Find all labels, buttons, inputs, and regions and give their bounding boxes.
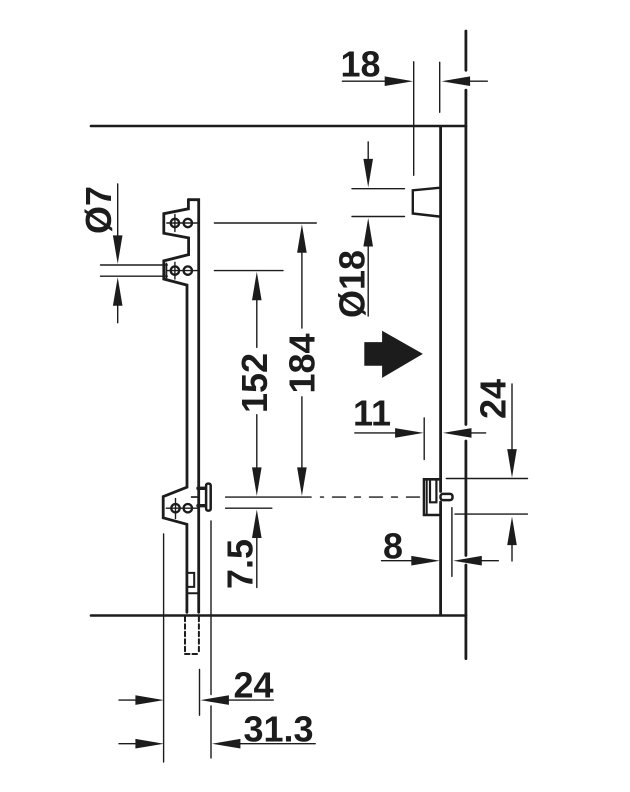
svg-text:8: 8 bbox=[383, 526, 403, 567]
mounting clip on side panel bbox=[424, 479, 440, 515]
bottom panel edge bbox=[91, 614, 466, 617]
dimension 18 lines and arrows bbox=[342, 80, 487, 82]
dimension D7 leaders and arrows bbox=[117, 184, 119, 323]
dimension 152 line and arrows bbox=[256, 300, 258, 467]
svg-text:Ø7: Ø7 bbox=[78, 186, 119, 234]
svg-text:7.5: 7.5 bbox=[219, 539, 260, 589]
direction arrow (solid) bbox=[364, 331, 423, 378]
dimension 7.5 leader and arrow bbox=[256, 538, 258, 588]
dimension 24 right extension lines bbox=[446, 479, 527, 515]
clip pin through panel bbox=[441, 494, 453, 500]
bottom extension lines bbox=[164, 521, 211, 762]
svg-text:152: 152 bbox=[234, 353, 275, 413]
dimension 24 right leaders and arrows bbox=[511, 384, 513, 561]
svg-text:24: 24 bbox=[473, 379, 514, 419]
dimension 11 extension line bbox=[423, 418, 425, 460]
svg-text:24: 24 bbox=[233, 665, 273, 706]
dimension D18 leaders and arrows bbox=[367, 142, 369, 316]
svg-text:Ø18: Ø18 bbox=[332, 250, 373, 318]
svg-text:18: 18 bbox=[340, 43, 380, 84]
system reference line at lower hole bbox=[192, 496, 312, 498]
dimension 8 extension line bbox=[451, 508, 453, 577]
axis line lower hole bbox=[166, 507, 271, 509]
dash-dot center line to clip bbox=[321, 496, 420, 498]
bracket hole top pair: crosshair circle bbox=[171, 219, 179, 227]
side panel outer edge bbox=[464, 31, 467, 659]
svg-text:184: 184 bbox=[281, 333, 322, 393]
drilled hole 18mm in side panel bbox=[413, 188, 439, 217]
bracket lower hole: crosshair circle bbox=[171, 504, 179, 512]
7mm hole bore lines bbox=[101, 265, 168, 276]
axis line top hole bbox=[167, 222, 316, 224]
dimension 184 line and arrows bbox=[301, 253, 303, 468]
hanging rail bracket right edge bbox=[188, 200, 198, 613]
dimension 8 lines and arrows bbox=[382, 560, 499, 562]
svg-text:31.3: 31.3 bbox=[243, 709, 313, 750]
bracket hole top pair: plain circle bbox=[184, 219, 192, 227]
svg-text:11: 11 bbox=[353, 393, 391, 434]
dimension 31.3 lines and arrows bbox=[119, 743, 315, 745]
bracket hole second pair: crosshair circle bbox=[171, 266, 179, 274]
dimension 24 bottom lines and arrows bbox=[119, 699, 273, 701]
top panel edge bbox=[91, 125, 466, 128]
bracket slot detail near bottom bbox=[187, 573, 194, 587]
hanging rail bracket left profile bbox=[163, 200, 188, 613]
axis line second hole bbox=[167, 270, 283, 272]
hidden rail continuation below bottom panel (dashed) bbox=[185, 617, 199, 654]
dimension D18 extension lines bbox=[352, 189, 405, 217]
bracket hole second pair: plain circle bbox=[184, 266, 192, 274]
clip pin on bracket bbox=[206, 484, 211, 511]
dimension 18 extension lines bbox=[414, 62, 440, 176]
dimension 11 lines and arrows bbox=[355, 432, 486, 434]
bracket lower hole: plain circle bbox=[184, 504, 192, 512]
side panel inner edge bbox=[439, 128, 442, 615]
